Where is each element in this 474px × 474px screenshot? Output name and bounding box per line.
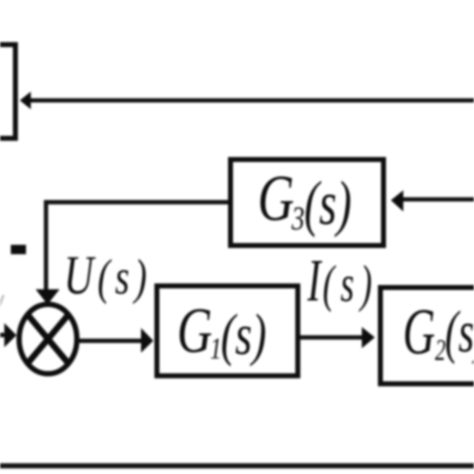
summing junction X stroke 1: [28, 315, 69, 364]
stray mark at left edge: [0, 295, 4, 307]
arrowhead into G3: [391, 190, 403, 211]
svg-text:(s): (s): [323, 254, 372, 313]
svg-text:G: G: [177, 295, 212, 366]
block G3: [231, 160, 384, 246]
wire: top feedback line: [31, 98, 474, 102]
summing junction circle: [19, 304, 77, 373]
svg-text:(s): (s): [97, 251, 146, 305]
label I(s): [307, 249, 372, 315]
svg-text:G: G: [403, 296, 435, 368]
svg-text:(s): (s): [221, 303, 267, 367]
wire: summing junction to G1: [77, 339, 143, 343]
arrowhead into G1: [141, 328, 153, 353]
arrowhead into box M: [20, 92, 31, 110]
wire: input at left edge: [0, 333, 6, 337]
svg-text:U: U: [64, 246, 96, 306]
box M (cut off at left edge): [0, 45, 15, 139]
wire: G3 output to summing junction: [46, 202, 228, 292]
label G3(s): [258, 162, 352, 239]
arrowhead into summing junction (left): [4, 323, 16, 347]
label U(s): [64, 246, 147, 306]
label G1(s): [177, 295, 266, 367]
label G2(s): [403, 296, 474, 368]
block G2 (cut off at right edge): [380, 288, 474, 384]
wire into G3 from right: [402, 197, 474, 201]
svg-text:G: G: [258, 162, 295, 235]
svg-text:(s): (s): [445, 299, 474, 364]
svg-text:(s): (s): [304, 169, 351, 238]
arrowhead into G2: [362, 327, 375, 348]
arrowhead into summing junction (top): [36, 289, 60, 304]
bottom border line: [0, 463, 474, 468]
summing junction X stroke 2: [28, 315, 69, 364]
minus sign: [11, 245, 26, 254]
block G1: [157, 286, 298, 376]
svg-text:3: 3: [291, 200, 305, 237]
wire: G1 to G2: [300, 335, 363, 339]
svg-text:I: I: [307, 249, 323, 315]
